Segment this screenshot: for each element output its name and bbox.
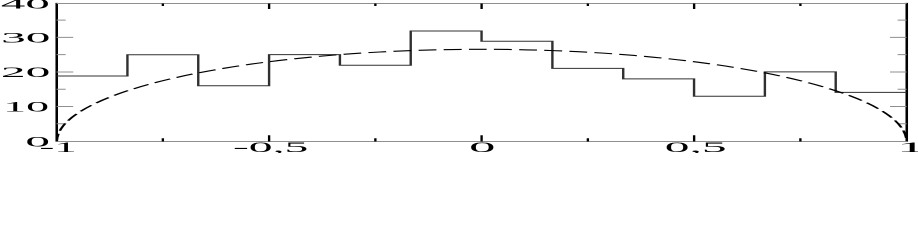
svg-text:0,5: 0,5	[665, 139, 727, 153]
svg-text:-0,5: -0,5	[233, 139, 308, 153]
svg-text:1: 1	[897, 139, 918, 153]
svg-text:40: 40	[1, 0, 50, 12]
svg-text:-1: -1	[39, 139, 76, 153]
svg-text:30: 30	[1, 30, 50, 46]
svg-text:20: 20	[1, 64, 50, 80]
svg-text:0: 0	[469, 140, 495, 153]
svg-text:10: 10	[3, 99, 49, 115]
